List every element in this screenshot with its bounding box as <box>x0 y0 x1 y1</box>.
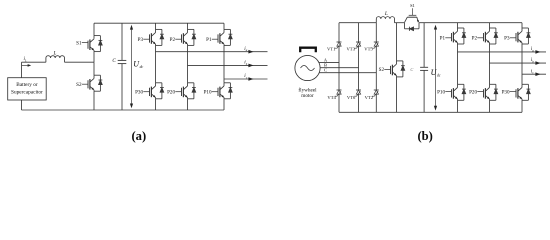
wire rectifier leg 2 upper <box>358 23 360 42</box>
wire inverter leg 2 collector (b) <box>489 23 491 28</box>
wire phase output c (b) <box>522 73 546 75</box>
thyristor VT3 <box>356 41 361 43</box>
svg-text:C: C <box>112 59 116 64</box>
current arrow ic (a) <box>248 77 253 81</box>
wire phase output a (a) <box>156 51 268 53</box>
wire inverter leg 3 collector (b) <box>521 23 523 28</box>
wire rectifier leg 1 lower <box>338 94 340 112</box>
svg-text:C: C <box>324 68 327 73</box>
svg-text:P30: P30 <box>135 90 143 96</box>
wire rectifier leg 1 middle <box>338 46 340 90</box>
thyristor VT1 <box>337 41 342 43</box>
wire rectifier leg 3 upper <box>375 23 377 42</box>
svg-text:L: L <box>24 59 27 63</box>
wire motor phase A <box>319 62 339 64</box>
top rail (b) rectifier <box>339 22 376 24</box>
svg-text:P2: P2 <box>170 37 176 43</box>
flywheel symbol <box>300 48 316 53</box>
voltage arrow Udc (a) <box>131 27 133 107</box>
wire inverter leg 1 emitter to bottom rail (b) <box>457 100 459 112</box>
wire inverter leg 2 emitter to bottom rail (b) <box>489 100 491 112</box>
wire phase output b (b) <box>490 62 547 64</box>
inductor L <box>46 56 65 63</box>
IGBT P3 (b) <box>522 27 528 29</box>
voltage arrow Udc (b) <box>435 26 437 108</box>
svg-text:P30: P30 <box>502 89 510 95</box>
top rail (a) <box>94 22 224 24</box>
IGBT P10 (a) <box>224 82 230 84</box>
motor M1 (flywheel motor) <box>295 55 320 80</box>
IGBT P30 (a) <box>156 82 162 84</box>
wire inverter leg 1 middle (b) <box>457 44 459 84</box>
wire inductor to S1 <box>395 22 405 24</box>
current arrow ib (b) <box>535 61 540 65</box>
current arrow ia (b) <box>535 50 540 54</box>
IGBT P2 (a) <box>188 28 194 30</box>
IGBT P20 (b) <box>490 83 496 85</box>
capacitor C (b) <box>420 66 428 68</box>
current arrow ic (b) <box>535 72 540 76</box>
thyristor VT5 <box>374 41 379 43</box>
current arrow ia (a) <box>248 50 253 54</box>
wire chopper leg upper <box>93 23 95 35</box>
wire phase output a (b) <box>458 51 547 53</box>
wire inverter leg 3 middle (a) <box>223 45 225 82</box>
svg-text:dc: dc <box>140 65 144 69</box>
bottom rail (a) <box>22 109 225 111</box>
svg-text:P3: P3 <box>504 36 510 42</box>
IGBT S2 <box>94 74 100 76</box>
IGBT S2 (b) <box>397 60 403 62</box>
svg-text:motor: motor <box>301 93 314 99</box>
svg-text:dc: dc <box>437 74 441 78</box>
wire capacitor top <box>121 23 123 60</box>
wire capacitor bottom <box>121 64 123 110</box>
IGBT P2 (b) <box>490 27 496 29</box>
svg-text:VT5: VT5 <box>364 46 373 51</box>
wire inverter leg 2 emitter to bottom rail (a) <box>187 99 189 110</box>
wire rectifier leg 3 middle <box>375 46 377 90</box>
svg-text:P1: P1 <box>206 37 212 43</box>
wire motor phase C <box>319 72 376 74</box>
wire inverter leg 1 collector (b) <box>457 23 459 28</box>
wire battery positive to DC node <box>21 62 23 77</box>
wire inverter leg 2 middle (b) <box>489 44 491 84</box>
thyristor VT2 <box>374 89 379 91</box>
IGBT S1 <box>94 35 100 37</box>
svg-text:P2: P2 <box>472 36 478 42</box>
wire inductor to chopper midpoint <box>65 61 95 63</box>
svg-text:P1: P1 <box>440 36 446 42</box>
svg-text:Supercapacitor: Supercapacitor <box>11 89 43 95</box>
wire inverter leg 2 collector (a) <box>187 23 189 29</box>
svg-text:P20: P20 <box>167 90 175 96</box>
node chopper midpoint <box>93 62 95 75</box>
inductor L (b) <box>376 17 394 23</box>
wire phase output c (a) <box>224 78 268 80</box>
IGBT P1 (a) <box>224 28 230 30</box>
wire rectifier leg 3 lower <box>375 94 377 112</box>
thyristor VT4 <box>337 89 342 91</box>
wire inverter leg 3 middle (b) <box>521 44 523 84</box>
svg-text:VT1: VT1 <box>327 46 336 51</box>
bottom rail (b) <box>339 111 522 113</box>
wire phase output b (a) <box>188 64 268 66</box>
svg-text:P3: P3 <box>138 37 144 43</box>
wire rectifier leg 2 middle <box>358 46 360 90</box>
svg-text:S1: S1 <box>76 40 82 46</box>
thyristor VT6 <box>356 89 361 91</box>
svg-text:Battery or: Battery or <box>16 82 38 88</box>
wire inverter leg 1 middle (a) <box>155 45 157 82</box>
wire inverter leg 2 middle (a) <box>187 45 189 82</box>
svg-text:L: L <box>52 50 56 56</box>
wire inverter leg 3 collector (a) <box>223 23 225 29</box>
svg-text:(b): (b) <box>417 129 432 143</box>
wire inverter leg 1 collector (a) <box>155 23 157 29</box>
wire capacitor bottom (b) <box>423 70 425 112</box>
wire S1 to inverter rail (b) <box>419 22 522 24</box>
wire S2 emitter to bottom rail (b) <box>396 77 398 112</box>
IGBT P30 (b) <box>522 83 528 85</box>
svg-text:S2: S2 <box>76 82 82 88</box>
IGBT P3 (a) <box>156 28 162 30</box>
svg-text:VT4: VT4 <box>327 95 336 100</box>
wire motor phase B <box>320 67 358 69</box>
svg-text:P20: P20 <box>469 89 477 95</box>
current arrow ib (a) <box>248 64 253 68</box>
svg-text:P10: P10 <box>437 89 445 95</box>
svg-text:VT6: VT6 <box>347 95 356 100</box>
wire rectifier leg 1 upper <box>338 23 340 42</box>
wire S1 emitter to midpoint node <box>93 52 95 63</box>
wire inverter leg 1 emitter to bottom rail (a) <box>155 99 157 110</box>
svg-text:S2: S2 <box>379 67 385 73</box>
IGBT P20 (a) <box>188 82 194 84</box>
wire rectifier leg 2 lower <box>358 94 360 112</box>
wire inverter leg 3 emitter to bottom rail (a) <box>223 99 225 110</box>
capacitor C <box>118 59 127 61</box>
wire battery negative to bottom rail <box>21 100 23 110</box>
IGBT P10 (b) <box>458 83 464 85</box>
wire S2 collector (b) <box>396 23 398 61</box>
svg-text:C: C <box>410 67 413 72</box>
IGBT P1 (b) <box>458 27 464 29</box>
svg-text:VT3: VT3 <box>346 46 355 51</box>
wire S2 emitter to bottom rail <box>93 91 95 110</box>
svg-text:P10: P10 <box>204 90 212 96</box>
svg-text:S1: S1 <box>410 3 415 8</box>
battery B1 (Battery or Supercapacitor) <box>8 78 47 100</box>
wire inverter leg 3 emitter to bottom rail (b) <box>521 100 523 112</box>
svg-text:(a): (a) <box>131 129 146 143</box>
wire capacitor top (b) <box>423 23 425 68</box>
svg-text:L: L <box>384 11 388 17</box>
current arrow iL <box>22 64 29 66</box>
svg-text:VT2: VT2 <box>365 95 374 100</box>
